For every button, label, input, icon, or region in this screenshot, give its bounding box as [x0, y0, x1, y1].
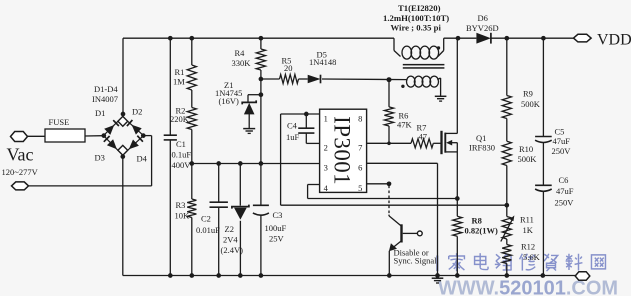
svg-text:1M: 1M — [173, 77, 185, 87]
svg-text:D1-D4: D1-D4 — [94, 84, 118, 94]
svg-text:D4: D4 — [137, 154, 148, 164]
svg-text:FUSE: FUSE — [49, 117, 70, 127]
svg-text:(16V): (16V) — [219, 96, 239, 106]
svg-text:C1: C1 — [176, 139, 186, 149]
svg-text:R12: R12 — [521, 242, 535, 252]
svg-text:R11: R11 — [520, 215, 534, 225]
svg-text:0.82(1W): 0.82(1W) — [465, 226, 498, 236]
svg-text:2: 2 — [324, 143, 328, 153]
svg-text:D6: D6 — [478, 13, 488, 23]
svg-text:25V: 25V — [269, 234, 285, 244]
svg-text:IN4007: IN4007 — [92, 94, 118, 104]
svg-text:Z2: Z2 — [225, 224, 234, 234]
svg-text:47K: 47K — [397, 120, 413, 130]
svg-text:C2: C2 — [201, 214, 211, 224]
svg-text:T1(EI2820): T1(EI2820) — [398, 3, 441, 13]
svg-text:330K: 330K — [232, 58, 252, 68]
svg-text:2V4: 2V4 — [223, 235, 238, 245]
svg-text:Wire ; 0.35 pi: Wire ; 0.35 pi — [391, 23, 442, 33]
svg-text:C6: C6 — [559, 175, 569, 185]
svg-text:C4: C4 — [287, 121, 298, 131]
svg-text:R3: R3 — [176, 200, 186, 210]
svg-text:R4: R4 — [235, 48, 246, 58]
svg-text:4: 4 — [324, 183, 329, 193]
svg-text:D1: D1 — [95, 108, 105, 118]
svg-text:1N4148: 1N4148 — [309, 57, 336, 67]
svg-text:47: 47 — [419, 132, 428, 142]
svg-text:IP3001: IP3001 — [329, 116, 354, 185]
svg-text:WWW.520101.COM: WWW.520101.COM — [438, 278, 618, 296]
svg-text:Sync. Signal: Sync. Signal — [394, 256, 438, 266]
svg-text:D2: D2 — [132, 107, 142, 117]
svg-text:10K: 10K — [175, 211, 191, 221]
svg-text:1K: 1K — [523, 225, 534, 235]
svg-text:400V: 400V — [172, 160, 192, 170]
svg-text:VDD: VDD — [597, 32, 631, 49]
svg-text:250V: 250V — [552, 146, 572, 156]
svg-text:IRF830: IRF830 — [469, 143, 495, 153]
svg-text:100uF: 100uF — [265, 223, 287, 233]
svg-text:D3: D3 — [95, 153, 105, 163]
svg-text:Q1: Q1 — [476, 133, 486, 143]
svg-text:BYV26D: BYV26D — [466, 23, 499, 33]
svg-text:500K: 500K — [518, 154, 538, 164]
svg-text:220K: 220K — [170, 114, 190, 124]
svg-text:500K: 500K — [521, 99, 541, 109]
svg-text:250V: 250V — [555, 198, 575, 208]
svg-text:8: 8 — [358, 113, 362, 123]
svg-text:5.6K: 5.6K — [523, 252, 541, 262]
svg-text:1.2mH(100T:10T): 1.2mH(100T:10T) — [383, 13, 449, 23]
svg-text:R1: R1 — [175, 67, 185, 77]
svg-text:R9: R9 — [523, 89, 533, 99]
svg-text:47uF: 47uF — [556, 186, 574, 196]
svg-text:5: 5 — [358, 183, 362, 193]
svg-text:0.1uF: 0.1uF — [172, 150, 192, 160]
svg-text:C3: C3 — [273, 210, 283, 220]
svg-text:R8: R8 — [472, 216, 482, 226]
svg-text:C5: C5 — [555, 127, 565, 137]
svg-text:(2.4V): (2.4V) — [221, 245, 244, 255]
svg-text:3: 3 — [324, 163, 328, 173]
svg-text:0.01uF: 0.01uF — [196, 225, 220, 235]
svg-text:Vac: Vac — [7, 145, 34, 165]
svg-text:1: 1 — [324, 113, 328, 123]
svg-text:120~277V: 120~277V — [2, 167, 39, 177]
svg-text:6: 6 — [358, 163, 362, 173]
svg-text:20: 20 — [284, 63, 293, 73]
svg-text:R10: R10 — [519, 144, 533, 154]
svg-text:7: 7 — [358, 143, 362, 153]
svg-text:1uF: 1uF — [286, 132, 300, 142]
svg-text:47uF: 47uF — [553, 136, 571, 146]
